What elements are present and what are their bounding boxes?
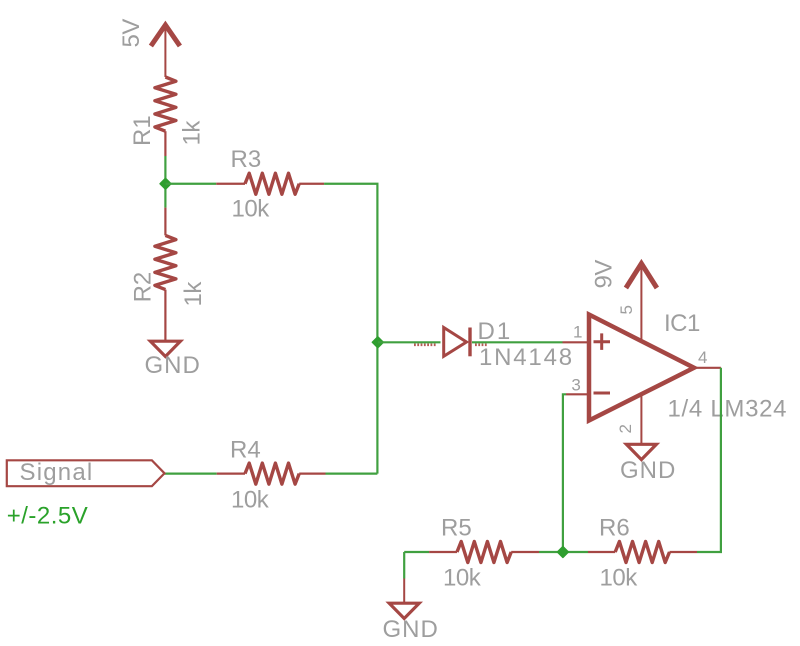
svg-text:5: 5 (617, 306, 636, 315)
svg-text:R3: R3 (231, 146, 262, 173)
svg-text:IC1: IC1 (664, 310, 700, 337)
resistor R4 (217, 463, 326, 484)
wire bottom GND drop (403, 552, 405, 579)
wire GND corner to R5 (404, 551, 429, 553)
wire Signal to R4 (165, 473, 217, 475)
wire output down to R6 (697, 368, 721, 552)
svg-text:10k: 10k (443, 565, 482, 592)
R2 bottom pin lead (164, 290, 166, 341)
svg-text:Signal: Signal (20, 459, 94, 486)
svg-text:GND: GND (383, 616, 439, 643)
wire R4 to node C (326, 473, 378, 475)
svg-text:1/4 LM324: 1/4 LM324 (668, 396, 788, 423)
wire node A vertical (164, 156, 166, 208)
svg-text:4: 4 (698, 348, 707, 367)
tiny pin name text right of diode (475, 343, 487, 346)
wire node A to R3 (166, 183, 217, 185)
R2 top pin lead (164, 208, 166, 236)
minus input marking (594, 392, 611, 395)
svg-text:R6: R6 (599, 515, 630, 542)
wire node C to diode (378, 341, 441, 343)
plus input marking (594, 333, 611, 350)
svg-text:D1: D1 (478, 318, 513, 345)
svg-text:+/-2.5V: +/-2.5V (7, 503, 89, 530)
supply 5V symbol (151, 25, 180, 77)
resistor R3 (216, 173, 324, 194)
op-amp pin 1 stub (563, 341, 590, 343)
svg-text:2: 2 (616, 425, 635, 434)
svg-text:1N4148: 1N4148 (479, 344, 574, 371)
op-amp IC1 triangle (589, 315, 694, 421)
svg-text:5V: 5V (118, 19, 145, 48)
tiny pin name text left of diode (414, 343, 437, 346)
svg-text:GND: GND (145, 352, 201, 379)
svg-text:R5: R5 (441, 515, 472, 542)
R1 bottom pin lead (164, 131, 166, 156)
op-amp pin 3 stub (566, 393, 589, 395)
supply 9V symbol (626, 264, 657, 342)
svg-text:1k: 1k (179, 120, 206, 146)
diode D1 (444, 328, 470, 357)
junction node F (557, 547, 568, 558)
svg-text:10k: 10k (232, 196, 271, 223)
Signal flag (7, 460, 165, 486)
svg-text:R1: R1 (129, 115, 156, 146)
svg-text:R2: R2 (129, 272, 156, 303)
svg-text:10k: 10k (600, 565, 639, 592)
resistor R1 (155, 77, 176, 131)
op-amp pin 2 lead (640, 394, 642, 444)
svg-text:1: 1 (573, 323, 582, 342)
svg-text:10k: 10k (231, 487, 270, 514)
svg-text:GND: GND (620, 457, 676, 484)
resistor R2 (155, 235, 176, 289)
ground symbol bottom left (389, 603, 419, 618)
op-amp output pin 4 stub (694, 367, 721, 369)
resistor R6 (588, 542, 697, 563)
svg-text:9V: 9V (591, 260, 618, 289)
junction node C (372, 337, 383, 348)
svg-text:1k: 1k (180, 281, 207, 307)
bottom ground pin lead (403, 579, 405, 604)
wire pin 3 to node F (563, 394, 566, 552)
ground symbol below R2 (150, 341, 180, 356)
junction node A (160, 178, 171, 189)
svg-text:3: 3 (571, 376, 580, 395)
wire R5 to node F (539, 551, 588, 553)
ground symbol below op-amp (626, 444, 656, 459)
resistor R5 (429, 542, 539, 563)
wire diode to op-amp pin 1 (472, 341, 563, 343)
wire R3 to node C (324, 184, 377, 474)
svg-text:R4: R4 (230, 437, 261, 464)
